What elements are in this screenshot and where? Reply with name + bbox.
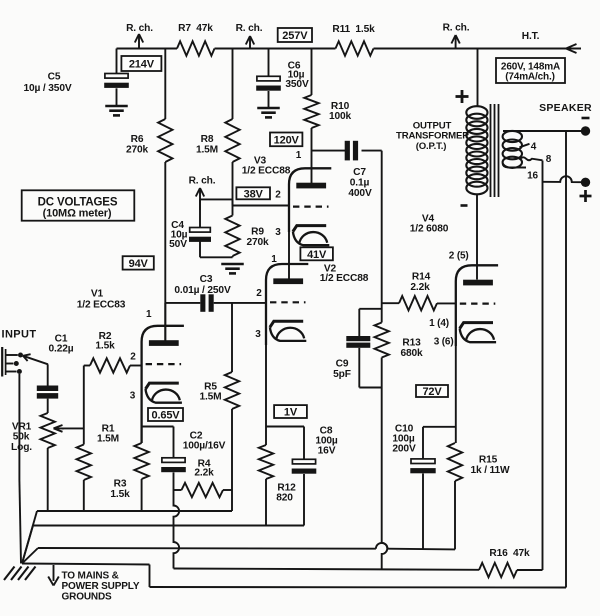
resistor R8 <box>232 49 234 120</box>
94V <box>123 256 154 269</box>
resistor R2 <box>84 365 90 367</box>
wire rail right to H.T. <box>374 48 582 50</box>
wire input ground <box>18 374 20 480</box>
wire 38V node line <box>233 205 290 207</box>
R. ch. arrow 2 <box>249 38 251 49</box>
wire C7 to V4 grid column <box>362 150 382 152</box>
svg-text:270k: 270k <box>246 237 269 248</box>
svg-text:1/2 ECC83: 1/2 ECC83 <box>77 300 126 311</box>
wire rail mid <box>215 48 336 50</box>
V4 1/2 6080 plate <box>463 280 493 286</box>
svg-text:1.5M: 1.5M <box>199 392 221 403</box>
svg-text:1: 1 <box>271 254 277 265</box>
svg-text:3: 3 <box>255 329 261 340</box>
ground bus 1 <box>22 511 37 564</box>
svg-text:Log.: Log. <box>11 442 32 453</box>
resistor R14 <box>382 302 399 304</box>
wire R8 down to 38V node <box>232 162 234 206</box>
svg-text:100µ/16V: 100µ/16V <box>183 441 226 452</box>
wire R15 to bus <box>454 481 456 549</box>
svg-text:1/2 ECC88: 1/2 ECC88 <box>242 166 291 177</box>
OPT secondary <box>503 131 522 142</box>
svg-text:1.5k: 1.5k <box>110 489 130 500</box>
0.65V <box>148 408 183 421</box>
1V <box>274 405 307 418</box>
svg-text:94V: 94V <box>129 258 149 270</box>
svg-text:10µ / 350V: 10µ / 350V <box>24 83 72 94</box>
wire C10 branch <box>423 426 456 428</box>
ground bus 3 <box>22 548 38 564</box>
to mains arrow <box>53 565 55 581</box>
resistor R7 <box>177 41 215 55</box>
svg-text:50V: 50V <box>169 239 187 250</box>
41V <box>300 247 333 260</box>
V3 1/2 ECC88 envelope <box>289 168 331 232</box>
wire R5 to R4 node <box>231 409 233 511</box>
wire C3 to V2 grid <box>214 302 266 304</box>
svg-text:3 (6): 3 (6) <box>434 337 454 348</box>
star ground earth <box>4 567 15 581</box>
V4 1/2 6080 envelope <box>456 265 498 346</box>
svg-text:400V: 400V <box>348 188 372 199</box>
capacitor C7 <box>345 141 350 161</box>
speaker plus terminal <box>581 178 590 187</box>
svg-text:4: 4 <box>531 142 537 153</box>
svg-text:257V: 257V <box>282 30 308 42</box>
V3 1/2 ECC88 plate <box>296 183 326 189</box>
top HT rail left segment <box>117 48 178 50</box>
resistor R16 <box>479 563 517 577</box>
ground C5 <box>105 105 128 108</box>
capacitor C4 <box>190 228 211 233</box>
wire V4 cathode down <box>455 346 457 443</box>
svg-text:TO MAINS &: TO MAINS & <box>62 571 119 582</box>
svg-text:1/2 ECC88: 1/2 ECC88 <box>320 273 369 284</box>
svg-text:R. ch.: R. ch. <box>236 23 263 34</box>
svg-text:2.2k: 2.2k <box>194 468 214 479</box>
wire R14 to V4 grid <box>437 302 456 304</box>
svg-text:72V: 72V <box>422 386 442 398</box>
R. ch. arrow 1 <box>138 36 140 49</box>
svg-text:1: 1 <box>296 150 302 161</box>
capacitor C3 <box>165 302 200 304</box>
svg-text:820: 820 <box>276 493 293 504</box>
svg-text:16: 16 <box>527 171 538 182</box>
wire R3 to ground bus <box>141 479 143 511</box>
svg-text:1V: 1V <box>284 407 298 419</box>
capacitor C10 <box>422 427 424 459</box>
V4 1/2 6080 cathode <box>460 323 493 329</box>
wire OPT primary to V4 plate <box>476 194 478 280</box>
svg-text:1k / 11W: 1k / 11W <box>470 465 510 476</box>
svg-text:1.5k: 1.5k <box>95 341 115 352</box>
resistor R11 <box>336 41 374 55</box>
wire speaker minus return column <box>565 131 567 588</box>
resistor R10 <box>311 49 313 96</box>
svg-text:270k: 270k <box>126 145 149 156</box>
wire R1 to ground bus <box>83 480 85 511</box>
resistor R9 <box>232 206 234 216</box>
V2 1/2 ECC88 cathode <box>270 321 303 327</box>
svg-text:H.T.: H.T. <box>522 31 540 42</box>
257V <box>278 28 312 42</box>
svg-text:100k: 100k <box>329 111 352 122</box>
wire secondary top tap to speaker minus <box>503 130 581 132</box>
svg-text:(O.P.T.): (O.P.T.) <box>416 141 447 152</box>
svg-text:SPEAKER: SPEAKER <box>539 102 592 114</box>
wire V1 plate lead <box>164 303 166 341</box>
svg-text:R9: R9 <box>251 227 264 238</box>
svg-text:R3: R3 <box>114 479 127 490</box>
svg-text:R14: R14 <box>412 272 431 283</box>
V3 1/2 ECC88 grid <box>293 206 329 208</box>
output transformer OPT <box>477 49 479 108</box>
120V <box>270 133 302 147</box>
wire R13/C9 node down with hop <box>382 388 388 569</box>
svg-text:0.01µ / 250V: 0.01µ / 250V <box>174 285 231 296</box>
svg-text:8: 8 <box>546 154 552 165</box>
svg-text:C5: C5 <box>48 72 61 83</box>
svg-text:(10MΩ meter): (10MΩ meter) <box>43 208 112 220</box>
svg-text:1: 1 <box>146 309 152 320</box>
wire R6 to V1 plate <box>164 162 166 341</box>
svg-text:2: 2 <box>130 352 136 363</box>
capacitor C5 <box>116 49 118 74</box>
svg-text:R. ch.: R. ch. <box>189 176 216 187</box>
ground bus 4 <box>22 564 150 565</box>
R. ch. arrow 4 <box>200 198 233 200</box>
tap 4 <box>520 144 530 148</box>
svg-text:0.65V: 0.65V <box>152 409 181 421</box>
wire plus line with hop <box>543 176 582 182</box>
capacitor C1 <box>37 386 58 392</box>
svg-text:R6: R6 <box>131 134 144 145</box>
svg-text:200V: 200V <box>392 444 416 455</box>
svg-text:R15: R15 <box>479 455 498 466</box>
214V <box>121 56 161 71</box>
feedback line R16 <box>174 569 480 570</box>
resistor R6 <box>164 49 166 120</box>
38V <box>236 187 270 199</box>
resistor R3 <box>134 443 148 479</box>
jack switch lever <box>23 356 48 365</box>
svg-text:1.5M: 1.5M <box>196 145 218 156</box>
svg-text:R8: R8 <box>201 134 214 145</box>
svg-text:R11 1.5k: R11 1.5k <box>332 24 375 35</box>
H.T. arrow <box>566 44 577 53</box>
V2 1/2 ECC88 plate <box>273 278 303 284</box>
svg-text:GROUNDS: GROUNDS <box>62 592 113 603</box>
wire R2 to V1 grid <box>130 365 142 367</box>
svg-text:R7 47k: R7 47k <box>178 23 213 34</box>
72V <box>416 385 448 397</box>
svg-text:38V: 38V <box>244 188 264 200</box>
capacitor C6 <box>268 49 270 77</box>
tap 8 <box>520 157 543 160</box>
wire V3 cathode to V2 plate <box>288 232 290 279</box>
VR1 wiper arrow <box>62 427 84 429</box>
svg-text:3: 3 <box>130 391 136 402</box>
svg-text:2 (5): 2 (5) <box>449 251 469 262</box>
svg-text:R. ch.: R. ch. <box>126 23 153 34</box>
V1 1/2 ECC83 cathode <box>146 383 179 389</box>
resistor R12 <box>265 427 267 446</box>
V2 1/2 ECC88 grid <box>270 301 306 303</box>
svg-text:3: 3 <box>275 227 281 238</box>
wire 8 tap feedback column <box>542 161 544 571</box>
resistor R5 <box>231 303 233 372</box>
svg-text:50k: 50k <box>13 432 30 443</box>
svg-text:R16 47k: R16 47k <box>489 548 530 559</box>
svg-text:2.2k: 2.2k <box>410 282 430 293</box>
wire R2/R1 node <box>83 366 85 445</box>
svg-text:2: 2 <box>256 288 262 299</box>
wire R10 to V3 plate <box>311 128 313 184</box>
capacitor C2 <box>162 458 185 463</box>
V4 1/2 6080 grid <box>460 303 496 305</box>
svg-text:0.22µ: 0.22µ <box>49 344 74 355</box>
svg-text:(74mA/ch.): (74mA/ch.) <box>505 72 555 83</box>
wire V3 plate node to C7 <box>312 150 346 152</box>
R. ch. arrow 3 <box>455 37 457 49</box>
svg-text:214V: 214V <box>129 58 155 70</box>
wire C4/R9 ground join <box>200 256 233 258</box>
ground bus 2 <box>22 526 33 564</box>
wire C2/R4 node down with hops <box>174 490 180 569</box>
wire V2 cathode down <box>265 345 267 427</box>
svg-text:POWER SUPPLY: POWER SUPPLY <box>62 581 140 592</box>
wire VR1 to ground bus <box>47 448 49 511</box>
V1 1/2 ECC83 grid <box>146 363 182 365</box>
capacitor C8 <box>303 427 305 460</box>
svg-text:C9: C9 <box>336 359 349 370</box>
ground C6 <box>257 107 280 110</box>
resistor R1 <box>77 445 91 481</box>
OPT core <box>490 104 492 197</box>
svg-text:680k: 680k <box>400 348 423 359</box>
svg-text:R13: R13 <box>402 338 421 349</box>
svg-text:16V: 16V <box>318 446 336 457</box>
wire lever to C1 <box>47 364 49 385</box>
resistor R13 <box>375 323 389 358</box>
wire C1 to VR1 <box>47 399 49 413</box>
svg-text:INPUT: INPUT <box>2 329 37 341</box>
svg-text:C7: C7 <box>353 167 366 178</box>
V2 1/2 ECC88 envelope <box>266 264 308 345</box>
resistor R15 <box>448 443 462 481</box>
DC VOLTAGES box <box>22 190 135 220</box>
260V box <box>496 58 565 83</box>
speaker minus terminal <box>581 126 590 135</box>
svg-text:V1: V1 <box>91 289 104 300</box>
svg-text:C3: C3 <box>200 274 213 285</box>
svg-text:1.5M: 1.5M <box>97 434 119 445</box>
V3 1/2 ECC88 cathode <box>293 226 326 232</box>
svg-text:TRANSFORMER: TRANSFORMER <box>396 131 469 142</box>
svg-text:41V: 41V <box>307 249 327 261</box>
svg-text:1 (4): 1 (4) <box>429 318 449 329</box>
tap 16 <box>503 164 526 168</box>
svg-text:0.1µ: 0.1µ <box>350 178 370 189</box>
potentiometer VR1 <box>41 413 55 448</box>
svg-text:350V: 350V <box>285 79 309 90</box>
svg-text:2: 2 <box>275 190 281 201</box>
V1 1/2 ECC83 envelope <box>142 326 184 443</box>
svg-text:5pF: 5pF <box>333 369 351 380</box>
svg-text:120V: 120V <box>274 134 300 146</box>
V1 1/2 ECC83 plate <box>149 340 179 346</box>
wire V1 cathode branch to C2 <box>142 426 174 428</box>
ground R9 <box>221 263 244 266</box>
svg-text:1/2 6080: 1/2 6080 <box>410 224 449 235</box>
wire V2 cathode branch <box>266 426 304 428</box>
capacitor C9 <box>359 308 381 310</box>
OPT minus <box>461 204 468 207</box>
svg-text:R. ch.: R. ch. <box>443 23 470 34</box>
resistor R4 <box>174 489 182 491</box>
